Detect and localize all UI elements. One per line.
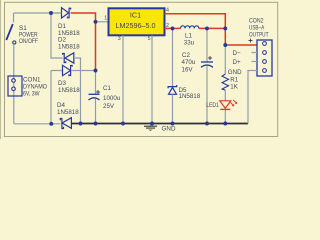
svg-text:1N5818: 1N5818	[58, 43, 80, 50]
label D1 1N5818	[58, 23, 80, 37]
red wire L1 to output node	[199, 27, 225, 29]
label S1 POWER ON/OFF	[19, 25, 38, 45]
wire top rail A	[14, 12, 62, 14]
label R1 1K	[230, 76, 238, 90]
LED1	[220, 100, 237, 110]
svg-text:R1: R1	[230, 76, 238, 83]
svg-text:1N5818: 1N5818	[57, 109, 79, 116]
diode D1	[53, 8, 71, 18]
svg-text:OUTPUT: OUTPUT	[249, 32, 269, 39]
svg-text:3: 3	[118, 36, 121, 42]
svg-text:1K: 1K	[230, 83, 238, 90]
svg-text:GND: GND	[162, 126, 176, 133]
wire switch top stub	[13, 13, 15, 23]
svg-text:D+: D+	[233, 59, 241, 66]
svg-text:6V, 3W: 6V, 3W	[23, 91, 40, 98]
diode D2	[63, 53, 74, 63]
node A column wire	[51, 13, 63, 58]
svg-text:LED1: LED1	[206, 102, 219, 109]
wire D3 cathode to C1 node	[72, 70, 95, 72]
svg-text:IC1: IC1	[130, 10, 141, 19]
wire switch to CON1 and down	[13, 44, 15, 124]
wire LED to ground rail	[224, 110, 226, 124]
label D4 1N5818	[57, 102, 79, 116]
svg-text:D4: D4	[57, 102, 65, 109]
svg-text:1N5818: 1N5818	[58, 87, 80, 94]
frame left edge	[0, 0, 1, 139]
resistor R1	[222, 74, 228, 90]
connector CON2 USB-A	[257, 40, 272, 76]
inductor L1	[181, 26, 199, 29]
wire pin1 stub	[96, 21, 110, 23]
op IC1 LM2596-5.0	[109, 8, 165, 35]
red wire D1 cathode to C1 top	[71, 13, 96, 71]
wire USB D- stub	[252, 52, 258, 54]
svg-text:1: 1	[104, 16, 107, 22]
label C2 470u 16V	[182, 52, 196, 73]
svg-text:C1: C1	[103, 85, 111, 92]
diode D4	[60, 118, 71, 129]
label D2 1N5818	[58, 37, 80, 51]
label CON1 DYNAMO 6V 3W	[23, 77, 47, 98]
svg-text:D−: D−	[233, 50, 241, 57]
svg-text:1000u: 1000u	[103, 95, 121, 102]
svg-text:ON/OFF: ON/OFF	[19, 38, 38, 45]
diode D3	[51, 65, 72, 75]
wire R1 to LED	[224, 90, 226, 101]
rail left segment	[14, 123, 61, 125]
label D3 1N5818	[58, 80, 80, 94]
svg-text:DYNAMO: DYNAMO	[23, 84, 47, 91]
switch S1	[6, 24, 16, 44]
svg-text:CON1: CON1	[23, 77, 41, 84]
svg-text:33u: 33u	[184, 39, 195, 46]
label C1 1000u 25V	[103, 85, 121, 110]
red wire pin2 to L1	[165, 27, 181, 29]
svg-text:GND: GND	[228, 69, 242, 76]
wire D2 to right column	[74, 58, 81, 124]
svg-text:1N5818: 1N5818	[179, 93, 201, 100]
svg-text:470u: 470u	[182, 59, 196, 66]
junction node dots	[49, 11, 227, 126]
svg-text:D3: D3	[58, 80, 66, 87]
label D5 1N5818	[179, 87, 201, 100]
capacitor C2	[201, 28, 213, 123]
wire USB GND to rail	[248, 71, 257, 124]
node B column wire	[50, 71, 52, 124]
red wire output to USB plus	[225, 44, 257, 46]
svg-text:C2: C2	[182, 52, 190, 59]
svg-text:16V: 16V	[182, 66, 194, 73]
ground symbol	[144, 124, 157, 132]
wire pin3 to ground	[122, 35, 124, 123]
frame border	[5, 2, 278, 136]
label L1 33u	[184, 33, 195, 47]
ground rail	[71, 123, 248, 125]
svg-text:CON2: CON2	[249, 18, 264, 25]
svg-text:4: 4	[166, 8, 169, 14]
wire pin5 to ground	[151, 35, 153, 123]
label CON2 USB-A OUTPUT	[249, 18, 269, 39]
svg-text:LM2596–5.0: LM2596–5.0	[116, 21, 156, 30]
capacitor C1	[89, 71, 101, 124]
svg-text:25V: 25V	[103, 103, 115, 110]
svg-text:5: 5	[148, 36, 151, 42]
red wire pin4 feedback	[165, 14, 226, 45]
diode D5	[168, 28, 177, 123]
svg-text:USB–A: USB–A	[249, 25, 265, 32]
wire USB D+ stub	[252, 61, 258, 63]
label plus pin	[249, 39, 253, 43]
connector CON1	[8, 76, 22, 96]
wire output node to R1	[224, 45, 226, 74]
